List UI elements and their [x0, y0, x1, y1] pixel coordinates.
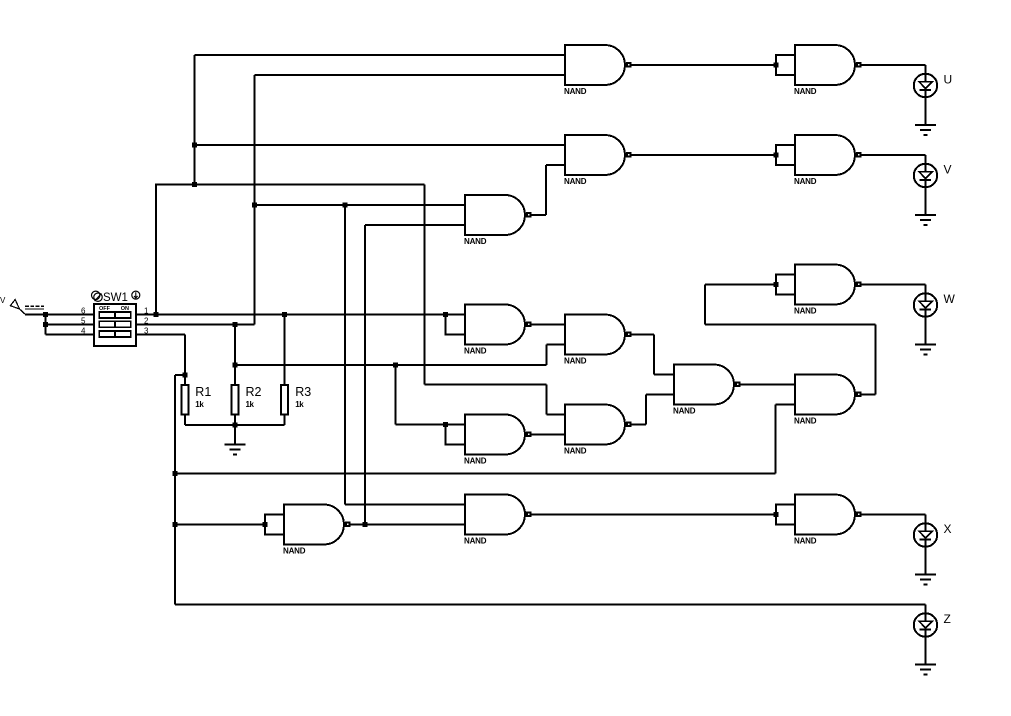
- svg-text:R3: R3: [295, 385, 311, 399]
- svg-text:OFF: OFF: [99, 306, 111, 312]
- svg-text:NAND: NAND: [794, 87, 817, 96]
- svg-text:NAND: NAND: [564, 357, 587, 366]
- svg-text:1: 1: [144, 307, 149, 316]
- svg-text:W: W: [944, 292, 956, 306]
- svg-text:1k: 1k: [195, 400, 204, 409]
- svg-text:R1: R1: [195, 385, 211, 399]
- svg-text:1k: 1k: [246, 400, 255, 409]
- svg-text:ON: ON: [121, 306, 129, 312]
- svg-text:4: 4: [81, 327, 86, 336]
- svg-text:NAND: NAND: [564, 177, 587, 186]
- svg-text:2: 2: [144, 317, 149, 326]
- svg-text:NAND: NAND: [464, 347, 487, 356]
- svg-text:R2: R2: [246, 385, 262, 399]
- svg-text:SW1: SW1: [103, 292, 128, 304]
- svg-text:5: 5: [81, 317, 86, 326]
- svg-text:NAND: NAND: [564, 87, 587, 96]
- svg-text:NAND: NAND: [794, 537, 817, 546]
- svg-text:X: X: [944, 522, 952, 536]
- svg-text:U: U: [944, 73, 953, 87]
- svg-text:NAND: NAND: [464, 237, 487, 246]
- svg-text:V: V: [944, 163, 952, 177]
- svg-text:NAND: NAND: [283, 547, 306, 556]
- svg-text:6: 6: [81, 307, 86, 316]
- svg-text:NAND: NAND: [794, 177, 817, 186]
- svg-text:5V: 5V: [0, 296, 6, 305]
- svg-text:NAND: NAND: [464, 537, 487, 546]
- svg-text:1k: 1k: [295, 400, 304, 409]
- svg-text:NAND: NAND: [564, 447, 587, 456]
- svg-text:NAND: NAND: [794, 307, 817, 316]
- svg-text:3: 3: [144, 327, 149, 336]
- svg-text:Z: Z: [944, 612, 951, 626]
- svg-text:NAND: NAND: [794, 417, 817, 426]
- svg-text:NAND: NAND: [673, 407, 696, 416]
- svg-text:NAND: NAND: [464, 457, 487, 466]
